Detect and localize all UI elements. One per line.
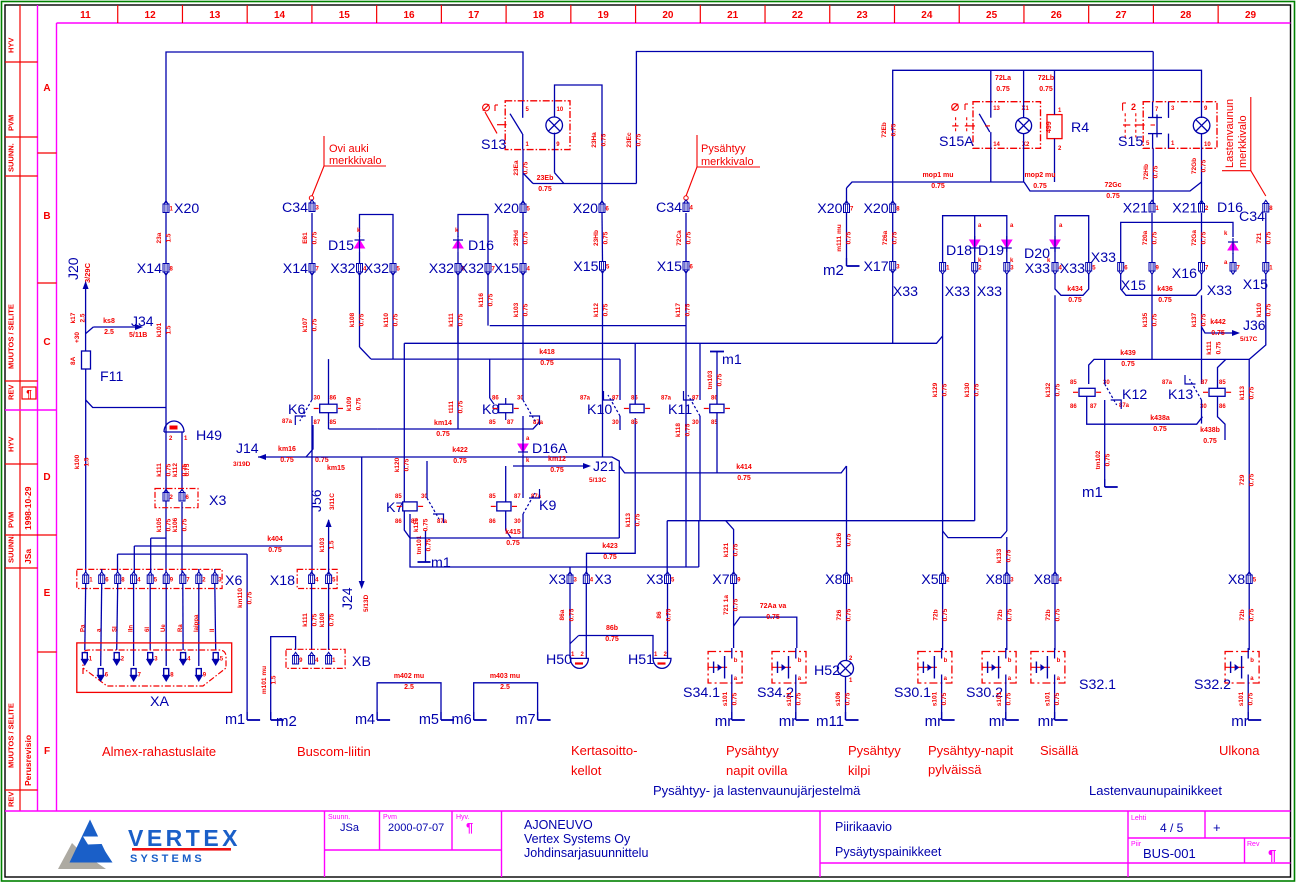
wire top bus left (166, 52, 523, 203)
svg-text:k404: k404 (267, 536, 283, 543)
svg-text:X15: X15 (657, 259, 682, 275)
X16:7 column down to K13 (1201, 295, 1203, 384)
k438b branch (1218, 397, 1226, 440)
svg-text:X3: X3 (646, 572, 663, 588)
svg-text:0.75: 0.75 (423, 518, 430, 531)
wire X15:6 down (685, 271, 687, 567)
svg-text:72b: 72b (997, 609, 1004, 620)
svg-text:10: 10 (557, 107, 564, 113)
left sidebar vertical lines (19, 5, 21, 811)
svg-text:85: 85 (489, 494, 496, 500)
svg-text:II: II (210, 628, 216, 632)
svg-text:MUUTOS / SELITE: MUUTOS / SELITE (7, 304, 16, 369)
svg-text:86: 86 (330, 396, 337, 402)
junction arrow J21 (513, 465, 584, 467)
svg-text:+30: +30 (74, 332, 81, 343)
X8:3 jog bus (943, 531, 1007, 538)
svg-text:m11: m11 (816, 713, 844, 730)
svg-text:k137: k137 (1191, 312, 1198, 327)
svg-text:X14: X14 (137, 261, 162, 277)
svg-text:X1: X1 (1022, 106, 1030, 112)
bus k414 (619, 466, 846, 473)
Vertex Systems logo (58, 843, 106, 869)
svg-text:0.75: 0.75 (1152, 231, 1159, 244)
svg-text:¶: ¶ (1268, 847, 1276, 864)
svg-text:H51: H51 (628, 652, 654, 668)
svg-text:k105: k105 (156, 517, 163, 532)
svg-text:23Eb: 23Eb (537, 175, 554, 182)
svg-text:X17: X17 (863, 259, 888, 275)
svg-text:0.75: 0.75 (404, 458, 411, 471)
k436 bus (1121, 273, 1202, 295)
svg-text:laippa: laippa (194, 614, 200, 632)
svg-text:85: 85 (489, 420, 496, 426)
svg-text:m403 mu: m403 mu (490, 673, 520, 680)
svg-text:1.5: 1.5 (166, 325, 173, 334)
svg-text:0.75: 0.75 (280, 457, 294, 464)
svg-text:0.75: 0.75 (312, 231, 319, 244)
svg-text:F11: F11 (100, 369, 124, 385)
svg-text:K13: K13 (1168, 387, 1193, 403)
svg-text:0.75: 0.75 (603, 231, 610, 244)
svg-text:s101: s101 (996, 691, 1003, 706)
svg-text:23Ha: 23Ha (591, 132, 598, 148)
svg-text:86a: 86a (559, 609, 566, 620)
svg-text:0.75: 0.75 (458, 313, 465, 326)
svg-text:X15: X15 (494, 261, 519, 277)
svg-text:0.75: 0.75 (1216, 341, 1223, 354)
S13 actuator symbol red (483, 104, 490, 111)
svg-text:X3: X3 (209, 493, 226, 509)
svg-text:0.75: 0.75 (1158, 297, 1172, 304)
svg-text:km12: km12 (548, 456, 566, 463)
diode D18 (970, 240, 980, 248)
svg-text:87: 87 (514, 494, 521, 500)
svg-text:0.75: 0.75 (942, 383, 949, 396)
bus k404 (134, 545, 311, 547)
mop bus (847, 182, 1025, 188)
svg-text:72b: 72b (1045, 609, 1052, 620)
svg-text:0.75: 0.75 (941, 692, 948, 705)
push button S30.1 (918, 652, 952, 684)
wire k414 down to X8:1 (846, 466, 848, 574)
svg-text:b: b (944, 658, 948, 664)
svg-text:0.75: 0.75 (601, 133, 608, 146)
ground m1 mid (425, 531, 427, 562)
svg-text:m1: m1 (722, 352, 742, 368)
svg-text:Perusrevisio: Perusrevisio (23, 735, 33, 786)
wires X18 to XB (311, 584, 313, 650)
bus row E (410, 514, 699, 567)
svg-text:0.75: 0.75 (603, 303, 610, 316)
svg-text:86: 86 (489, 519, 496, 525)
svg-text:2000-07-07: 2000-07-07 (388, 822, 444, 834)
svg-text:0.75: 0.75 (685, 303, 692, 316)
svg-text:2.5: 2.5 (500, 684, 510, 691)
svg-text:kilpi: kilpi (848, 763, 871, 778)
svg-text:0.75: 0.75 (1248, 692, 1255, 705)
svg-text:23a: 23a (156, 232, 163, 243)
wire X20:6 to X15:5 (601, 213, 604, 261)
svg-text:k109: k109 (346, 396, 353, 411)
svg-text:C34: C34 (656, 200, 682, 216)
svg-text:87a: 87a (282, 419, 293, 425)
lamp H49 (164, 421, 184, 432)
connector pin X7:9 (731, 572, 737, 584)
svg-text:0.75: 0.75 (1266, 231, 1273, 244)
svg-text:S32.2: S32.2 (1194, 677, 1231, 693)
svg-text:J36: J36 (1243, 317, 1266, 333)
svg-text:k135: k135 (1142, 312, 1149, 327)
svg-text:X33: X33 (1025, 261, 1050, 277)
svg-text:S32.1: S32.1 (1079, 677, 1116, 693)
push button S34.1 (708, 652, 742, 684)
svg-text:Kertasoitto-: Kertasoitto- (571, 743, 637, 758)
red note Pysahtyy merkkivalo (697, 135, 760, 167)
wire C34:4 to X15:6 (685, 213, 687, 261)
svg-text:0.75: 0.75 (846, 608, 853, 621)
svg-text:VERTEX: VERTEX (128, 825, 241, 851)
svg-text:D: D (43, 472, 50, 483)
svg-text:k436: k436 (1157, 286, 1173, 293)
svg-text:k111: k111 (448, 313, 455, 327)
wire up to right top bus (636, 52, 1153, 184)
red note Lastenvaunun merkkivalo (1222, 97, 1251, 171)
svg-text:X33: X33 (1207, 283, 1232, 299)
svg-text:0.75: 0.75 (974, 383, 981, 396)
connector pin X3:5 (665, 572, 671, 584)
svg-text:H50: H50 (546, 652, 572, 668)
svg-text:0.75: 0.75 (891, 123, 898, 136)
svg-text:m2: m2 (823, 262, 844, 279)
svg-text:m2: m2 (276, 713, 297, 730)
svg-text:0.75: 0.75 (996, 86, 1010, 93)
diode D19 (1002, 240, 1012, 248)
connector pin X21:1 (1149, 200, 1155, 212)
svg-text:k112: k112 (172, 463, 179, 477)
svg-text:5/17C: 5/17C (1240, 336, 1258, 343)
S15A contact and lamp (990, 102, 992, 118)
svg-text:87: 87 (507, 420, 514, 426)
svg-text:0.75: 0.75 (1203, 438, 1217, 445)
svg-text:0.75: 0.75 (1153, 426, 1167, 433)
svg-text:J14: J14 (236, 440, 259, 456)
svg-text:0.75: 0.75 (1005, 692, 1012, 705)
push button S32.1 (1031, 652, 1065, 684)
svg-text:0.75: 0.75 (523, 231, 530, 244)
svg-text:0.75: 0.75 (737, 475, 751, 482)
svg-text:0.75: 0.75 (182, 518, 189, 531)
svg-text:HYV: HYV (7, 437, 16, 452)
connector pin X15:5 (600, 262, 606, 274)
svg-text:IIn: IIn (129, 625, 135, 632)
svg-text:X32: X32 (330, 261, 355, 277)
svg-text:b: b (734, 658, 738, 664)
svg-text:23: 23 (857, 10, 869, 21)
svg-text:k106: k106 (172, 517, 179, 532)
svg-text:s101: s101 (932, 691, 939, 706)
svg-text:m402 mu: m402 mu (394, 673, 424, 680)
svg-text:m1: m1 (225, 712, 245, 728)
svg-text:pylväissä: pylväissä (928, 762, 982, 777)
connector pin X20:6 (599, 201, 605, 213)
svg-text:1.5: 1.5 (166, 233, 173, 242)
bus row E right portion (667, 521, 699, 567)
wires X6 down to XA (84, 584, 87, 650)
wires below X32:4/5 (359, 273, 361, 347)
svg-text:K9: K9 (539, 498, 556, 514)
svg-text:X20: X20 (494, 201, 519, 217)
bus to m1 column (118, 553, 248, 555)
k439 bus (1089, 359, 1250, 384)
wire X20:5 to X15:4 (522, 213, 524, 263)
svg-text:k108: k108 (319, 612, 326, 627)
X5/X8 pins row bottom right (940, 572, 946, 584)
svg-text:0.75: 0.75 (666, 608, 673, 621)
svg-text:72Ga: 72Ga (1191, 230, 1198, 246)
72Gc bus (1024, 182, 1202, 191)
grounds m4 m5 bridge (377, 683, 441, 720)
svg-text:k434: k434 (1067, 286, 1083, 293)
svg-text:0.75: 0.75 (426, 538, 433, 551)
svg-text:0.75: 0.75 (540, 360, 554, 367)
svg-text:Piirikaavio: Piirikaavio (835, 820, 892, 834)
svg-text:0.75: 0.75 (1201, 313, 1208, 326)
svg-text:0.75: 0.75 (506, 540, 520, 547)
svg-text:BUS-001: BUS-001 (1143, 846, 1196, 861)
svg-text:mr: mr (1038, 713, 1056, 730)
svg-text:H49: H49 (196, 428, 222, 444)
svg-text:XA: XA (150, 694, 169, 710)
svg-text:mop1 mu: mop1 mu (922, 172, 953, 179)
diode D16 right (1121, 222, 1233, 262)
push button S32.2 (1225, 652, 1259, 684)
svg-text:k415: k415 (505, 529, 521, 536)
svg-text:0.75: 0.75 (603, 554, 617, 561)
svg-text:A: A (43, 83, 50, 94)
svg-text:k438b: k438b (1200, 427, 1220, 434)
svg-text:X21: X21 (1123, 201, 1148, 217)
svg-text:Pysähtyy: Pysähtyy (701, 143, 746, 155)
top bus right (893, 70, 1202, 203)
svg-text:X15: X15 (1121, 278, 1146, 294)
svg-text:87a: 87a (661, 396, 672, 402)
switch box S15 (1143, 102, 1217, 149)
svg-text:m4: m4 (355, 712, 375, 728)
connector pin X14:8 (163, 264, 169, 276)
svg-text:72Hb: 72Hb (1143, 164, 1150, 180)
svg-text:JSa: JSa (340, 822, 360, 834)
svg-text:87: 87 (1201, 380, 1208, 386)
svg-text:0.75: 0.75 (184, 463, 191, 476)
svg-text:3/29C: 3/29C (83, 262, 92, 283)
svg-text:X3: X3 (549, 572, 566, 588)
svg-text:K10: K10 (587, 402, 612, 418)
svg-text:6I: 6I (145, 627, 151, 632)
svg-text:k112: k112 (593, 303, 600, 317)
svg-text:s101: s101 (1045, 691, 1052, 706)
svg-text:D16: D16 (468, 238, 494, 254)
connector pin X32:5 (390, 264, 396, 276)
D20 loop (1055, 216, 1089, 262)
svg-text:X8: X8 (1228, 572, 1245, 588)
svg-text:16: 16 (403, 10, 415, 21)
svg-text:mr: mr (779, 713, 797, 730)
svg-text:0.75: 0.75 (569, 608, 576, 621)
svg-text:X21: X21 (1172, 201, 1197, 217)
svg-text:k121: k121 (723, 542, 730, 557)
k438a bus (1087, 397, 1203, 425)
ground m2 bottom (271, 637, 296, 720)
connector pin X15:6 (683, 262, 689, 274)
svg-text:k442: k442 (1210, 319, 1226, 326)
svg-text:729: 729 (1239, 474, 1246, 485)
svg-text:R4: R4 (1071, 120, 1089, 136)
svg-text:S15: S15 (1118, 134, 1143, 150)
svg-text:k103: k103 (319, 537, 326, 552)
svg-text:24: 24 (921, 10, 933, 21)
svg-text:0.75: 0.75 (312, 318, 319, 331)
svg-text:b: b (798, 658, 802, 664)
svg-text:mr: mr (989, 713, 1007, 730)
svg-text:s101: s101 (1238, 691, 1245, 706)
svg-text:30: 30 (314, 396, 321, 402)
wires down to buttons (942, 584, 944, 650)
svg-text:23Hb: 23Hb (593, 230, 600, 246)
connector X18 box (297, 569, 337, 588)
svg-text:X8: X8 (985, 572, 1002, 588)
svg-text:J34: J34 (131, 313, 154, 329)
connector XB box (286, 649, 345, 668)
svg-text:Sisällä: Sisällä (1040, 743, 1079, 758)
svg-text:0.75: 0.75 (268, 547, 282, 554)
svg-text:2: 2 (1131, 102, 1136, 112)
svg-text:kellot: kellot (571, 763, 602, 778)
X15:9 column down to k439 (1151, 273, 1153, 359)
svg-text:Lehti: Lehti (1131, 815, 1147, 822)
svg-text:86: 86 (1219, 404, 1226, 410)
svg-text:F: F (44, 746, 50, 757)
svg-text:0.75: 0.75 (312, 613, 319, 626)
svg-text:mr: mr (925, 713, 943, 730)
wires above S15A (990, 70, 992, 101)
top column-number strip (57, 22, 1291, 24)
svg-text:2.5: 2.5 (104, 329, 114, 336)
svg-text:72Aa va: 72Aa va (760, 603, 787, 610)
svg-text:AJONEUVO: AJONEUVO (524, 818, 593, 832)
svg-text:72Lb: 72Lb (1038, 75, 1054, 82)
svg-text:726a: 726a (882, 230, 889, 245)
svg-text:0.75: 0.75 (1121, 361, 1135, 368)
svg-text:23Ea: 23Ea (513, 160, 520, 176)
svg-text:86: 86 (656, 611, 663, 619)
bell H51 (667, 584, 669, 658)
diode D15 with X32 loop (360, 215, 394, 264)
svg-text:X20: X20 (863, 201, 888, 217)
svg-text:Johdinsarjasuunnittelu: Johdinsarjasuunnittelu (524, 846, 648, 860)
wire X15:4 to K8 contact (522, 273, 524, 391)
connector pin X21:2 (1199, 200, 1205, 212)
D18 D19 loop (943, 216, 1007, 262)
svg-text:C34: C34 (282, 200, 308, 216)
svg-text:HYV: HYV (7, 38, 16, 53)
diode D20 (1050, 240, 1060, 248)
connector pin C34:8 (1263, 200, 1269, 212)
svg-text:X33: X33 (945, 284, 970, 300)
svg-text:0.75: 0.75 (1039, 86, 1053, 93)
svg-text:0.75: 0.75 (605, 636, 619, 643)
svg-text:s101: s101 (786, 691, 793, 706)
svg-text:Ra: Ra (178, 624, 184, 632)
svg-text:X32: X32 (459, 261, 484, 277)
svg-text:15: 15 (339, 10, 351, 21)
svg-text:87a: 87a (1162, 380, 1173, 386)
svg-text:72Gb: 72Gb (1191, 158, 1198, 174)
svg-text:30: 30 (692, 420, 699, 426)
svg-text:726: 726 (836, 609, 843, 620)
ground m1 above K11 (710, 351, 724, 353)
revision marker box (22, 387, 36, 399)
svg-text:0.75: 0.75 (733, 598, 740, 611)
bus below K9/K7 (410, 537, 619, 539)
svg-text:0.75: 0.75 (1211, 330, 1225, 337)
svg-text:72b: 72b (933, 609, 940, 620)
connector pin X32:6 (455, 264, 461, 276)
svg-text:C34: C34 (1239, 209, 1265, 225)
svg-text:14: 14 (274, 10, 286, 21)
svg-text:Ulkona: Ulkona (1219, 743, 1260, 758)
svg-text:C: C (43, 337, 50, 348)
svg-text:0.75: 0.75 (356, 397, 363, 410)
svg-text:0.75: 0.75 (453, 458, 467, 465)
wire C34:3 to X14:7 (311, 213, 313, 263)
svg-text:87a: 87a (580, 396, 591, 402)
svg-text:XB: XB (352, 654, 371, 670)
svg-text:X15: X15 (573, 259, 598, 275)
svg-text:SYSTEMS: SYSTEMS (130, 853, 205, 865)
svg-text:D20: D20 (1024, 246, 1050, 262)
svg-text:m1: m1 (1082, 484, 1103, 501)
svg-text:0.75: 0.75 (636, 133, 643, 146)
svg-text:k126: k126 (836, 532, 843, 547)
svg-text:k111: k111 (302, 613, 309, 627)
svg-text:0.75: 0.75 (550, 467, 564, 474)
svg-text:E61: E61 (302, 232, 309, 244)
bus via diagonal from D15 column (371, 358, 620, 360)
switch box S13 (505, 101, 570, 150)
svg-text:0.75: 0.75 (931, 183, 945, 190)
connector pin C34:4 (683, 200, 689, 212)
svg-text:0.75: 0.75 (1249, 608, 1256, 621)
svg-text:86: 86 (1070, 404, 1077, 410)
S15A actuator symbol red (952, 104, 959, 111)
svg-text:X33: X33 (1060, 261, 1085, 277)
grounds m6 m7 bridge (474, 683, 538, 720)
svg-text:13: 13 (209, 10, 221, 21)
svg-text:PVM: PVM (7, 512, 16, 528)
svg-text:k422: k422 (452, 447, 468, 454)
svg-text:B: B (43, 211, 50, 222)
svg-text:27: 27 (1115, 10, 1127, 21)
wire X20:7 m2 (846, 188, 848, 203)
svg-text:Ue: Ue (161, 624, 167, 632)
svg-text:86: 86 (492, 396, 499, 402)
svg-text:K8: K8 (482, 402, 499, 418)
bus 72Aa to S34 buttons (733, 584, 735, 648)
svg-text:k101: k101 (156, 322, 163, 337)
svg-text:721: 721 (1256, 232, 1263, 243)
svg-text:b: b (1057, 658, 1061, 664)
